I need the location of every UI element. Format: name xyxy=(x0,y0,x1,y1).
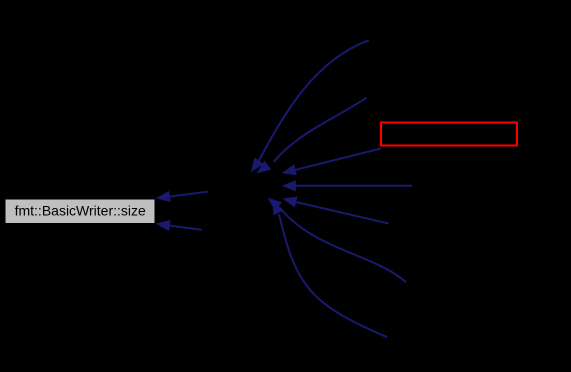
wire edge E1: top outer curve xyxy=(259,40,369,161)
arrowhead E7 xyxy=(267,198,283,216)
arrowhead E9 xyxy=(155,218,171,231)
arrowhead E3 xyxy=(280,164,297,178)
svg-text:fmt::BasicWriter::size: fmt::BasicWriter::size xyxy=(15,202,146,218)
arrowhead E4 xyxy=(282,180,296,191)
arrowhead E8 xyxy=(155,191,171,204)
wire edge E3: from red box xyxy=(294,149,381,171)
arrowhead E6 xyxy=(264,193,282,211)
wire edge E2: top inner curve xyxy=(274,98,367,162)
wire edge E4: horizontal xyxy=(296,185,413,187)
node: fmt::BasicWriter::size (current node, grey) xyxy=(6,200,155,224)
arrowhead E2 xyxy=(253,161,271,178)
wire edge E5 xyxy=(296,202,389,224)
wire edge E8: into grey box upper xyxy=(168,192,208,197)
arrowhead E5 xyxy=(281,193,298,207)
wire edge E7: lower curve B xyxy=(279,214,387,337)
wire edge E9: into grey box lower xyxy=(168,225,202,230)
arrowhead E1 xyxy=(246,158,263,176)
wire edge E6: lower curve A xyxy=(279,207,406,282)
node: truncated caller (red box) xyxy=(381,123,517,146)
